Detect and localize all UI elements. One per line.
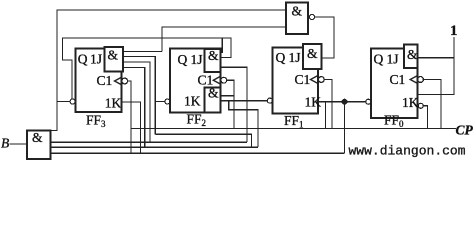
wire: tap from FF2 clock drop to A2b input 1 xyxy=(221,95,235,97)
clock edge wedge FF0 xyxy=(410,76,417,84)
wire: FF2 clock down to CP rail xyxy=(227,80,234,128)
svg-text:1K: 1K xyxy=(184,94,201,109)
svg-text:1K: 1K xyxy=(105,96,122,111)
wire: FF0 clock to CP rail xyxy=(423,80,441,129)
NAND gate U5 (top) xyxy=(286,3,308,35)
wire: NAND input B line y27 from x162 xyxy=(162,27,287,52)
wire: left rail x57 down to gate U6 top input xyxy=(51,102,57,132)
wire: constant 1 tap to A0 input xyxy=(418,57,455,59)
svg-text:www.diangon.com: www.diangon.com xyxy=(349,144,466,159)
svg-text:&: & xyxy=(108,48,119,63)
wire: Q-bar0 to FF1 K row xyxy=(318,101,366,103)
flip-flop FF1 box xyxy=(273,48,319,114)
wire: Q-bar3 riser to long line y38 xyxy=(63,38,223,99)
node junction dot on Q-bar0 wire xyxy=(342,99,347,104)
Q-bar bubble FF2 xyxy=(165,99,170,104)
wire: CP rail y128.5 xyxy=(131,128,456,130)
Q-bar bubble FF1 xyxy=(267,98,272,103)
wire: jog from Q-bar1 line down to bus L2 end xyxy=(229,101,258,148)
clock edge wedge FF1 xyxy=(311,76,318,84)
wire: FF3 K row to drop x140.5 down to bus L3 xyxy=(122,102,141,153)
AND gate A3 (top-right of FF3) xyxy=(105,47,124,72)
svg-text:Q: Q xyxy=(78,52,88,67)
wire: Q-bar3 from bubble to left rail x57 xyxy=(57,101,70,103)
svg-text:&: & xyxy=(208,48,219,63)
set bubble FF0 (right edge lower) xyxy=(418,103,423,108)
wire: A3 input 4 down to bus L2 xyxy=(123,68,145,148)
wire: bus L1 from gate U6 xyxy=(51,141,248,143)
flip-flop FF0 box xyxy=(371,49,418,119)
AND gate A2b (bottom-right of FF2) xyxy=(205,88,221,113)
wire: A3 input 3 down to bus L1 xyxy=(123,62,150,142)
wire: tee from Q-bar0 wire down to CP rail xyxy=(325,102,327,129)
wire: B input to gate U6 xyxy=(10,143,28,145)
svg-text:1J: 1J xyxy=(289,50,301,65)
svg-text:1J: 1J xyxy=(90,52,102,67)
wire: Q-bar0 drop down to bus L3 end xyxy=(344,102,346,154)
svg-text:&: & xyxy=(292,4,303,19)
svg-text:&: & xyxy=(307,46,318,61)
svg-text:Q: Q xyxy=(178,52,188,67)
svg-text:&: & xyxy=(208,86,219,101)
svg-text:C1: C1 xyxy=(295,72,311,87)
wire: y38 line tap down to A2 input 1 xyxy=(221,38,222,53)
AND gate A1 (top-right of FF1) xyxy=(303,44,322,69)
svg-text:Q: Q xyxy=(276,50,286,65)
svg-text:1: 1 xyxy=(450,23,458,39)
svg-text:&: & xyxy=(407,47,418,62)
wire: left rail x57 up to top line and NAND input A xyxy=(57,10,287,102)
svg-text:C1: C1 xyxy=(390,72,406,87)
flip-flop FF2 box xyxy=(170,49,221,113)
wire: bus L2 from gate U6 xyxy=(51,146,259,148)
clock edge wedge FF2 xyxy=(213,76,220,84)
svg-text:1K: 1K xyxy=(305,95,322,110)
wire: NAND U5 output to A1 input xyxy=(315,17,334,58)
wire: A3 input 2 to Q-bar2 drop x155.3 xyxy=(123,57,155,135)
AND gate U6 (input B, bottom left) xyxy=(27,130,51,159)
svg-text:C1: C1 xyxy=(198,73,214,88)
Q-bar bubble FF0 xyxy=(366,99,371,104)
wire: A2 input 3 down to bus L1 end xyxy=(221,67,248,142)
svg-text:FF3: FF3 xyxy=(86,113,106,130)
wire: bus L3 from gate U6 to Q-bar0 drop xyxy=(51,152,345,154)
flip-flop FF3 box xyxy=(76,49,122,113)
wire: A3 input 1 to riser x162 xyxy=(123,51,162,53)
svg-text:1J: 1J xyxy=(191,52,203,67)
wire: constant 1 net down to FF0 K row xyxy=(418,37,455,95)
svg-text:FF2: FF2 xyxy=(187,112,207,129)
svg-text:B: B xyxy=(1,136,9,151)
svg-text:C1: C1 xyxy=(97,73,113,88)
svg-text:FF1: FF1 xyxy=(284,113,304,130)
wire: Q-bar2 bubble to drop x155.3 xyxy=(155,101,165,103)
wire: Q-bar1 to A2b input 2 xyxy=(221,100,268,102)
AND gate A2 (top-right of FF2) xyxy=(205,49,221,72)
clock bubble FF3 xyxy=(122,78,128,84)
AND gate A0 (top-right of FF0) xyxy=(404,45,418,69)
wire: FF1 clock down to CP rail xyxy=(324,80,332,129)
svg-text:&: & xyxy=(32,130,43,145)
svg-text:FF0: FF0 xyxy=(384,113,404,130)
svg-text:CP: CP xyxy=(456,123,473,138)
clock bubble FF2 xyxy=(221,77,227,83)
clock edge wedge FF3 xyxy=(115,77,122,85)
wire: FF3 clock bubble to CP rail xyxy=(128,81,131,153)
svg-text:Q: Q xyxy=(374,52,384,67)
clock bubble FF0 xyxy=(418,77,424,83)
NAND U5 output bubble xyxy=(310,15,315,20)
Q-bar bubble FF3 xyxy=(70,99,75,104)
wire: FF0 lower bubble to CP rail xyxy=(423,106,427,129)
wire: y38 line end down to A2 input 2 xyxy=(221,38,231,58)
svg-text:1K: 1K xyxy=(402,95,419,110)
clock bubble FF1 xyxy=(318,77,324,83)
wire: y134.3 line over to x251.5 down to bus L2 xyxy=(155,134,251,147)
svg-text:1J: 1J xyxy=(387,52,399,67)
